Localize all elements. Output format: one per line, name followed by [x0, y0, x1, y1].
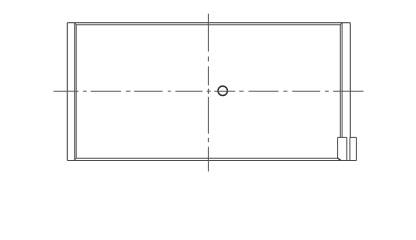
locating lug left edge [337, 137, 339, 158]
bottom-left corner chamfer diagonal [75, 158, 76, 160]
left parting-face strip left edge [66, 23, 68, 161]
top-left corner chamfer diagonal [75, 23, 76, 25]
locating lug outer right edge [355, 137, 357, 160]
main rectangle left edge [75, 25, 77, 159]
locating lug outer step left edge [349, 137, 351, 160]
locating lug inner right edge [346, 137, 348, 160]
top-right corner chamfer diagonal [340, 23, 342, 25]
right parting-face strip outer edge [349, 23, 351, 138]
vertical centerline (dash-dot) [207, 14, 209, 172]
right parting-face strip left edge [341, 23, 343, 138]
locating lug bend diagonal [338, 158, 341, 160]
oil hole circle [218, 86, 227, 95]
locating lug outer step top segment [350, 136, 357, 138]
inner bottom line (chamfer edge) [76, 157, 337, 159]
locating lug top left segment [338, 136, 347, 138]
left parting-face strip right edge [74, 23, 76, 161]
outer bottom line [67, 160, 356, 162]
bearing shell inner top line (chamfer edge) [76, 24, 340, 26]
main rectangle right edge [339, 25, 341, 138]
bearing shell outer top line [67, 22, 350, 24]
horizontal centerline (dash-dot) [54, 90, 364, 92]
